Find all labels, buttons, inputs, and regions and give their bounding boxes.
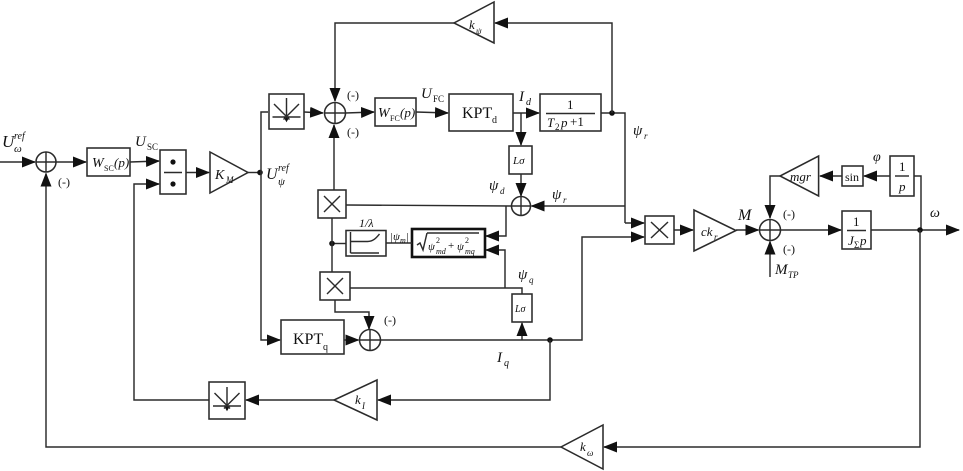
- gain mgr: [780, 156, 819, 196]
- svg-text:FC: FC: [390, 114, 400, 123]
- block sqrt: [412, 229, 485, 257]
- block 1/p: [890, 156, 914, 196]
- wire Iq rail: [381, 237, 645, 340]
- svg-text:r: r: [563, 195, 567, 205]
- node Iq: [547, 337, 553, 343]
- block 1/Jp: [842, 211, 871, 250]
- wire sin to mgr: [820, 175, 842, 177]
- wire output omega: [871, 229, 959, 231]
- svg-text:I: I: [518, 89, 525, 105]
- label U_w_ref: [2, 131, 26, 155]
- svg-text:1: 1: [567, 97, 574, 112]
- wire psi_r into X3 upper: [625, 222, 644, 224]
- svg-text:ψ: ψ: [476, 26, 482, 36]
- svg-text:(-): (-): [347, 125, 359, 139]
- wire S4 out to X1: [346, 205, 512, 206]
- wire KPTd to T2p block: [513, 112, 539, 114]
- wire omega down to k_omega: [604, 230, 920, 447]
- node omega: [917, 227, 923, 233]
- svg-text:FC: FC: [433, 94, 444, 104]
- wire X2 out to S5: [335, 300, 369, 329]
- block 1/(T2p+1): [540, 94, 601, 132]
- label Iq: [496, 350, 509, 369]
- gain ck_r: [694, 210, 736, 251]
- label psi_r right: [633, 123, 648, 141]
- wire node up to limiter1: [261, 112, 268, 173]
- wire S2 to Wfc: [346, 112, 375, 113]
- svg-text:(-): (-): [783, 207, 795, 221]
- block Lsigma_d: [509, 146, 532, 174]
- svg-text:(-): (-): [783, 242, 795, 256]
- wire Wfc to KPTd: [416, 112, 448, 113]
- block limiter2: [209, 382, 245, 419]
- svg-text:r: r: [644, 131, 648, 141]
- svg-text:U: U: [135, 134, 147, 150]
- svg-text:ψ: ψ: [518, 267, 528, 283]
- svg-text:K: K: [214, 168, 225, 183]
- wire X1 out up to S2: [333, 125, 335, 190]
- svg-text:Σ: Σ: [854, 240, 859, 250]
- wire Id branch down to Lsigma_d: [520, 113, 522, 145]
- multiplier X3: [645, 216, 674, 244]
- gain k_omega: [561, 425, 603, 469]
- svg-text:q: q: [323, 342, 328, 353]
- label Usc: [135, 134, 158, 152]
- wire mgr to S6: [770, 176, 780, 218]
- block Wsc(p): [87, 148, 130, 176]
- svg-text:M: M: [225, 175, 234, 185]
- wire Lsigma_d to S4: [520, 174, 522, 196]
- svg-text:(-): (-): [58, 175, 70, 189]
- svg-text:2: 2: [465, 236, 469, 245]
- svg-text:ψ: ψ: [552, 187, 562, 203]
- label Ufc: [421, 86, 444, 104]
- block sin: [842, 166, 863, 186]
- wire Mtp into S6: [769, 242, 771, 278]
- multiplier X1: [318, 190, 346, 218]
- svg-text:1: 1: [853, 214, 860, 229]
- svg-text:φ: φ: [873, 150, 881, 165]
- svg-text:|ψ: |ψ: [390, 231, 400, 243]
- svg-text:k: k: [580, 439, 586, 454]
- wire limiter1 to S2: [304, 112, 323, 113]
- svg-text:U: U: [421, 86, 433, 102]
- wire k_I to limiter2: [246, 399, 334, 401]
- svg-text:+: +: [448, 240, 454, 252]
- svg-text:ψ: ψ: [489, 178, 499, 194]
- svg-text:q: q: [504, 358, 509, 369]
- wire 1/lambda out to node: [332, 243, 346, 245]
- svg-text:TP: TP: [788, 270, 799, 280]
- svg-text:Lσ: Lσ: [512, 155, 525, 167]
- svg-text:mq: mq: [465, 247, 475, 256]
- svg-text:ω: ω: [14, 143, 22, 155]
- label Mtp: [774, 262, 799, 280]
- wire limiter2 to divider lower input: [134, 184, 209, 400]
- svg-text:(p): (p): [114, 155, 129, 170]
- svg-text:mgr: mgr: [790, 169, 812, 184]
- svg-text:+1: +1: [570, 114, 584, 129]
- svg-text:md: md: [436, 247, 447, 256]
- svg-text:d: d: [492, 115, 497, 126]
- wire Iq up into Lsigma_q: [521, 323, 523, 340]
- summer S1: [36, 152, 56, 172]
- wire X3 out to ck_r: [674, 229, 693, 231]
- svg-text:p: p: [859, 233, 867, 248]
- svg-text:ref: ref: [14, 131, 26, 142]
- svg-text:M: M: [737, 207, 753, 224]
- wire divider to Km: [186, 172, 209, 174]
- svg-text:ref: ref: [278, 163, 290, 174]
- wire S1 to Wsc: [56, 161, 86, 163]
- label psi_d: [489, 178, 505, 196]
- svg-text:2: 2: [436, 236, 440, 245]
- wire psi_q rail into X2: [350, 288, 522, 294]
- svg-text:SC: SC: [104, 164, 114, 173]
- svg-text:ω: ω: [587, 448, 593, 458]
- block 1/lambda: [346, 231, 386, 257]
- wire ck_r to S6: [736, 229, 759, 231]
- top feedback wire to k_psi: [495, 23, 612, 113]
- svg-text:q: q: [529, 275, 534, 285]
- node Upsi_ref: [248, 172, 261, 174]
- summer S5: [360, 330, 381, 351]
- svg-text:M: M: [774, 262, 789, 278]
- label Id: [518, 89, 532, 108]
- block KPTq: [281, 320, 344, 354]
- wire input U_w_ref: [0, 161, 35, 163]
- summer S6: [760, 220, 781, 241]
- svg-text:ψ: ψ: [428, 241, 435, 253]
- svg-text:d: d: [500, 186, 505, 196]
- branch to sqrt upper input: [486, 206, 506, 236]
- wire k_psi to S2 top: [335, 23, 454, 101]
- wire node up to X1 / down to X2: [331, 218, 333, 272]
- wire sqrt out to 1/lambda: [386, 242, 412, 244]
- block Wfc(p): [375, 98, 416, 126]
- svg-text:Lσ: Lσ: [514, 304, 527, 315]
- multiplier X2: [320, 272, 350, 300]
- svg-text:ψ: ψ: [457, 241, 464, 253]
- gain Km: [210, 152, 248, 193]
- block divider: [160, 150, 186, 194]
- svg-text:SC: SC: [147, 142, 158, 152]
- svg-text:1: 1: [899, 159, 906, 174]
- svg-text:p: p: [898, 179, 906, 194]
- svg-text:ck: ck: [701, 224, 713, 239]
- svg-text:k: k: [355, 392, 361, 407]
- block Lsigma_q: [512, 294, 532, 322]
- svg-text:k: k: [469, 17, 475, 32]
- svg-text:ψ: ψ: [633, 123, 643, 139]
- wire KPTq to S5: [344, 339, 359, 341]
- label |psi_m|: [390, 231, 409, 245]
- svg-text:(-): (-): [347, 88, 359, 102]
- svg-text:2: 2: [555, 122, 560, 132]
- wire S6 to 1/Jp: [781, 229, 842, 231]
- svg-text:T: T: [547, 115, 555, 130]
- svg-text:KPT: KPT: [293, 331, 323, 348]
- wire psi_r into S4: [532, 205, 626, 207]
- label psi_q upper: [518, 267, 534, 285]
- wire k_omega to S1: [46, 174, 561, 448]
- svg-text:ω: ω: [930, 206, 940, 221]
- svg-text:(p): (p): [400, 105, 415, 120]
- wire node down to KPTq: [261, 173, 280, 341]
- svg-text:|: |: [406, 231, 409, 243]
- wire 1/p to sin: [864, 175, 890, 177]
- svg-text:KPT: KPT: [462, 105, 492, 122]
- wire T2p out, node psi_r: [601, 113, 625, 223]
- label Upsi_ref: [266, 163, 290, 188]
- summer S4: [512, 197, 531, 216]
- node lambda: [329, 241, 335, 247]
- svg-text:1/λ: 1/λ: [359, 216, 374, 230]
- label psi_r mid: [552, 187, 567, 205]
- gain k_psi: [454, 2, 494, 43]
- svg-text:I: I: [496, 350, 503, 366]
- summer S2: [325, 103, 346, 124]
- gain k_I: [334, 380, 377, 420]
- svg-text:r: r: [714, 232, 718, 242]
- wire Wsc to divider: [130, 161, 159, 162]
- block limiter1: [269, 94, 304, 129]
- svg-text:(-): (-): [384, 313, 396, 327]
- wire Iq down to k_I: [378, 340, 550, 400]
- svg-text:ψ: ψ: [278, 176, 285, 188]
- sqrt lower input from psi_q: [486, 250, 505, 288]
- svg-text:sin: sin: [845, 170, 859, 184]
- wire omega node to 1/p: [914, 176, 921, 230]
- svg-text:p: p: [560, 115, 568, 130]
- block KPTd: [449, 94, 513, 131]
